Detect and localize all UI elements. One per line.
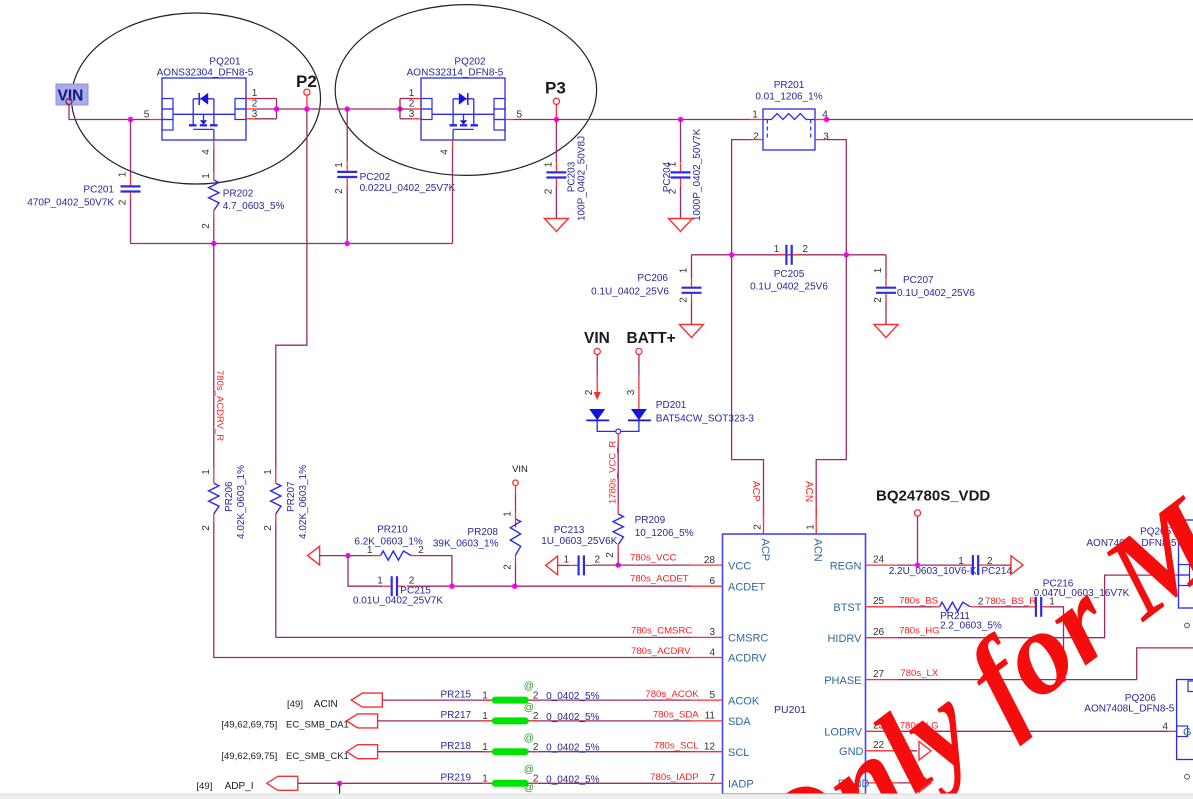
svg-text:PR206: PR206	[224, 481, 235, 512]
connector arrow PC213 net	[546, 556, 558, 575]
wire ACN drop	[816, 255, 846, 517]
svg-text:PR208: PR208	[467, 527, 498, 538]
svg-text:PR217: PR217	[441, 710, 472, 721]
wire arrow to PC213	[558, 564, 570, 566]
svg-text:PC213: PC213	[554, 525, 585, 536]
svg-text:780s_ACDET: 780s_ACDET	[630, 574, 689, 585]
svg-text:780s_ACDRV_R: 780s_ACDRV_R	[214, 370, 225, 441]
svg-text:780s_ACOK: 780s_ACOK	[645, 689, 699, 700]
PQ201 pins 1-3 stubs	[246, 98, 255, 100]
wire BATT+ to diode	[638, 355, 640, 376]
svg-text:2: 2	[533, 690, 539, 701]
wire PGND stub	[898, 782, 917, 784]
wire main rail to right edge	[827, 119, 1193, 121]
wire P3 row to PC204 and PR201	[556, 119, 750, 121]
transistor PQ202	[421, 78, 505, 140]
svg-text:PR219: PR219	[441, 773, 472, 784]
IC pin 5 ACOK	[691, 699, 723, 701]
resistor PR202	[213, 140, 215, 150]
ellipse around PQ202 circuit	[335, 5, 596, 176]
svg-text:39K_0603_1%: 39K_0603_1%	[433, 539, 499, 550]
svg-text:PR209: PR209	[635, 515, 666, 526]
wire drain row P2 to PQ202	[277, 108, 401, 110]
svg-text:@: @	[524, 782, 534, 793]
wire PC201 branch down	[130, 120, 132, 177]
wire PQ202 to P3	[514, 119, 556, 121]
wire BTST row	[898, 606, 932, 608]
PR201 dashed pads	[766, 120, 768, 140]
svg-text:2: 2	[543, 188, 554, 194]
svg-text:1: 1	[263, 469, 274, 475]
svg-text:1: 1	[564, 555, 570, 566]
ground PC207	[874, 325, 898, 338]
junction rail at PC202	[345, 241, 350, 246]
svg-text:BTST: BTST	[833, 602, 861, 614]
svg-text:VIN: VIN	[584, 330, 610, 347]
svg-text:1: 1	[482, 711, 488, 722]
svg-text:0_0402_5%: 0_0402_5%	[546, 774, 599, 785]
IC pin 22 GND	[866, 750, 899, 752]
svg-text:780s_BS: 780s_BS	[899, 595, 938, 606]
svg-text:G: G	[1183, 727, 1192, 739]
svg-text:PR215: PR215	[441, 689, 472, 700]
svg-text:PHASE: PHASE	[824, 675, 861, 687]
PQ202 pins 1-3 stubs	[400, 98, 412, 100]
svg-text:2: 2	[263, 525, 274, 531]
connector arrow PR210 net	[308, 546, 320, 565]
svg-text:4.7_0603_5%: 4.7_0603_5%	[223, 201, 285, 212]
wire REGN row	[898, 564, 967, 566]
wire PC214 to arrow	[987, 564, 1011, 566]
svg-text:EC_SMB_CK1: EC_SMB_CK1	[286, 751, 349, 762]
svg-text:2: 2	[753, 131, 759, 142]
wire LODRV row	[898, 730, 1168, 732]
wire PC206 to ground	[691, 301, 693, 324]
svg-text:PD201: PD201	[656, 400, 687, 411]
wire VCC_R net down	[617, 434, 619, 441]
svg-text:ACN: ACN	[811, 539, 823, 562]
svg-text:PC207: PC207	[903, 275, 934, 286]
svg-text:CMSRC: CMSRC	[728, 633, 768, 645]
svg-text:1: 1	[958, 556, 964, 567]
wire to PC216	[979, 606, 1028, 608]
wire VDD drop	[917, 516, 919, 565]
IC pin 3 CMSRC	[691, 636, 723, 638]
svg-text:2: 2	[595, 555, 601, 566]
connector ACIN	[351, 693, 382, 707]
svg-text:1: 1	[201, 173, 212, 179]
wire P2 net down to PR207	[276, 109, 307, 468]
capacitor PC213	[577, 555, 579, 575]
svg-text:26: 26	[873, 627, 885, 638]
svg-text:1: 1	[873, 267, 884, 273]
ground PC206	[680, 325, 704, 338]
svg-text:780s_SCL: 780s_SCL	[654, 741, 699, 752]
resistor PR209	[617, 505, 619, 506]
svg-text:0.022U_0402_25V7K: 0.022U_0402_25V7K	[360, 183, 456, 194]
IC pin 25 BTST	[866, 606, 899, 608]
svg-text:[49]: [49]	[287, 699, 303, 710]
wire PC207 to ground	[885, 301, 887, 324]
svg-text:4.02K_0603_1%: 4.02K_0603_1%	[298, 465, 309, 539]
PR201 pin 1 stub	[750, 119, 763, 121]
IC pin 26 HIDRV	[866, 637, 899, 639]
capacitor PC206	[691, 255, 693, 279]
svg-text:PQ206: PQ206	[1125, 693, 1157, 704]
svg-text:ACDET: ACDET	[728, 581, 766, 593]
svg-text:1: 1	[201, 469, 212, 475]
svg-text:780s_IADP: 780s_IADP	[650, 772, 699, 783]
IC pin 23 LODRV	[866, 730, 899, 732]
connector arrow REGN	[1011, 556, 1023, 575]
svg-text:1000P_0402_50V7K: 1000P_0402_50V7K	[692, 128, 703, 221]
wire PC215 branch	[348, 556, 383, 587]
svg-text:0_0402_5%: 0_0402_5%	[546, 691, 599, 702]
PR201 zigzag	[763, 114, 815, 120]
svg-text:4: 4	[1162, 722, 1168, 733]
svg-text:27: 27	[873, 669, 885, 680]
svg-text:3: 3	[709, 627, 715, 638]
wire SCL row	[378, 751, 691, 753]
svg-text:P3: P3	[545, 79, 566, 98]
junction ADP_I branch	[337, 781, 342, 786]
wire PC216 to LX node	[1050, 607, 1064, 680]
capacitor PC207	[885, 255, 887, 279]
svg-text:PC205: PC205	[774, 269, 805, 280]
diode PD201-A	[589, 409, 605, 420]
wire bottom rail	[131, 243, 453, 245]
connector arrow GND	[919, 742, 931, 761]
junction at PC201 tap	[128, 117, 133, 122]
connector arrow PGND	[919, 774, 931, 793]
svg-text:@: @	[524, 703, 534, 714]
transistor PQ201	[162, 78, 246, 140]
svg-text:2: 2	[584, 389, 595, 395]
svg-text:[49,62,69,75]: [49,62,69,75]	[221, 751, 277, 762]
svg-text:12: 12	[704, 742, 716, 753]
svg-text:2: 2	[605, 552, 616, 558]
wire VIN to rail	[69, 105, 150, 120]
capacitor PC205	[785, 245, 787, 265]
svg-text:ACP: ACP	[750, 481, 761, 502]
bottom scrollbar	[0, 794, 1193, 799]
wire PHASE row	[898, 679, 1064, 681]
svg-text:ACP: ACP	[759, 539, 771, 562]
svg-text:BAT54CW_SOT323-3: BAT54CW_SOT323-3	[656, 414, 755, 425]
wire ACDRV_R vertical	[213, 244, 215, 468]
ellipse around PQ201 circuit	[72, 13, 321, 184]
IC pin 28 VCC	[691, 564, 723, 566]
resistor PR211	[940, 602, 971, 611]
svg-text:BATT+: BATT+	[627, 330, 676, 347]
svg-text:24: 24	[873, 555, 885, 566]
connector ADP_I	[267, 776, 298, 790]
junction PC205 left	[729, 252, 734, 257]
wire PC204 to ground	[680, 186, 682, 219]
svg-text:2: 2	[201, 223, 212, 229]
wire ACP drop	[732, 255, 764, 517]
svg-text:2: 2	[753, 524, 764, 530]
svg-text:0.01U_0402_25V7K: 0.01U_0402_25V7K	[353, 596, 443, 607]
jumper PR217	[483, 720, 492, 722]
wire VIN to PR208	[515, 486, 517, 495]
svg-text:6.2K_0603_1%: 6.2K_0603_1%	[354, 537, 423, 548]
wire P2 drop	[306, 95, 308, 109]
svg-text:780s_SDA: 780s_SDA	[653, 710, 699, 721]
wire PR202 to rail	[213, 219, 215, 244]
pin 5 stub PQ201	[150, 119, 162, 121]
wire PC205 row	[692, 254, 887, 256]
svg-text:1: 1	[334, 162, 345, 168]
svg-text:AON7408L_DFN8-5: AON7408L_DFN8-5	[1084, 704, 1174, 715]
wire ACIN row	[382, 699, 690, 701]
IC pin 7 IADP	[691, 782, 723, 784]
wire PR207 to CMSRC row	[276, 522, 691, 638]
svg-text:2: 2	[802, 244, 808, 255]
svg-text:PR218: PR218	[441, 741, 472, 752]
wire PC202 branch down	[346, 109, 348, 162]
svg-text:28: 28	[704, 555, 716, 566]
connector EC_SMB_CK1	[347, 745, 378, 759]
svg-text:5: 5	[709, 690, 715, 701]
svg-text:ACIN: ACIN	[314, 699, 338, 710]
PQ202 pin 5 stub	[505, 119, 514, 121]
svg-text:6: 6	[709, 576, 715, 587]
capacitor PC216	[1035, 597, 1037, 617]
capacitor PC214	[972, 555, 974, 575]
svg-text:11: 11	[705, 711, 716, 722]
wire PC203 to ground	[555, 186, 557, 219]
wire PC202 to rail	[346, 185, 348, 243]
wire LX to PQ205 source	[1064, 648, 1193, 680]
svg-text:2: 2	[201, 525, 212, 531]
svg-text:1: 1	[543, 161, 554, 167]
IC pin 24 REGN	[866, 564, 899, 566]
connector EC_SMB_DA1	[347, 714, 378, 728]
svg-text:1: 1	[409, 88, 415, 99]
capacitor PC204	[680, 120, 682, 163]
wire HIDRV row	[898, 575, 1170, 638]
svg-text:25: 25	[873, 596, 885, 607]
svg-text:1: 1	[482, 690, 488, 701]
svg-text:AONS32314_DFN8-5: AONS32314_DFN8-5	[407, 68, 504, 79]
svg-text:1: 1	[774, 244, 780, 255]
svg-text:2: 2	[409, 99, 415, 110]
power flag VIN (highlighted)	[56, 84, 88, 105]
svg-text:[49]: [49]	[196, 781, 212, 792]
svg-text:@: @	[524, 764, 534, 775]
svg-text:PC204: PC204	[662, 161, 673, 192]
svg-text:EC_SMB_DA1: EC_SMB_DA1	[286, 720, 349, 731]
svg-text:VIN: VIN	[58, 88, 84, 105]
wire VIN to diode	[596, 355, 598, 376]
svg-text:SDA: SDA	[728, 716, 751, 728]
junction PR201 pin 4	[824, 117, 829, 122]
svg-text:0.1U_0402_25V6: 0.1U_0402_25V6	[897, 288, 975, 299]
junction LX BTST cap	[1061, 677, 1066, 682]
svg-text:4: 4	[201, 149, 212, 155]
svg-text:VIN: VIN	[512, 464, 528, 475]
wire PR208 to ACDET row	[515, 563, 517, 586]
svg-text:ACDRV: ACDRV	[728, 653, 767, 665]
svg-text:4: 4	[709, 647, 715, 658]
jumper PR218	[483, 751, 492, 753]
svg-text:780s_HG: 780s_HG	[899, 626, 940, 637]
svg-text:PR207: PR207	[286, 481, 297, 512]
svg-text:0_0402_5%: 0_0402_5%	[546, 743, 599, 754]
svg-text:P2: P2	[296, 72, 317, 91]
PQ202 drain tie bar	[399, 99, 401, 119]
svg-text:2: 2	[679, 297, 690, 303]
svg-text:3: 3	[626, 389, 637, 395]
wire P3 drop	[555, 104, 557, 119]
junction drain bar	[274, 106, 279, 111]
wire PR210 to ACDET row	[419, 556, 452, 587]
svg-text:4: 4	[440, 149, 451, 155]
wire PC201 to rail	[130, 200, 132, 244]
svg-text:1: 1	[118, 171, 129, 177]
svg-text:2: 2	[252, 99, 258, 110]
svg-text:REGN: REGN	[830, 560, 862, 572]
IC pin 6 ACDET	[691, 585, 723, 587]
wire SDA row	[378, 720, 691, 722]
resistor PR206	[213, 468, 215, 476]
IC pin 27 PHASE	[866, 679, 899, 681]
svg-text:1: 1	[752, 110, 758, 121]
svg-text:4.02K_0603_1%: 4.02K_0603_1%	[236, 465, 247, 539]
svg-text:SCL: SCL	[728, 747, 749, 759]
resistor PR208	[515, 520, 517, 528]
resistor PR210	[381, 551, 412, 560]
svg-text:ACOK: ACOK	[728, 695, 760, 707]
svg-text:ACN: ACN	[803, 481, 814, 502]
capacitor PC201	[130, 177, 132, 179]
IC pin 21 PGND	[866, 782, 899, 784]
capacitor PC215	[391, 576, 393, 596]
svg-text:3: 3	[252, 109, 258, 120]
svg-text:PQ202: PQ202	[454, 57, 486, 68]
svg-text:470P_0402_50V7K: 470P_0402_50V7K	[27, 198, 114, 209]
svg-text:AONS32304_DFN8-5: AONS32304_DFN8-5	[157, 68, 254, 79]
wire PR209 to VCC row	[617, 553, 619, 566]
wire ACDET row	[407, 585, 691, 587]
IC pin 12 SCL	[691, 751, 723, 753]
svg-text:1: 1	[679, 267, 690, 273]
capacitor PC202	[346, 162, 348, 164]
ground PC203	[544, 219, 568, 232]
svg-text:@: @	[524, 733, 534, 744]
junction rail at PR202	[211, 241, 216, 246]
wire VCC row	[592, 564, 690, 566]
svg-text:1: 1	[482, 742, 488, 753]
svg-text:780s_CMSRC: 780s_CMSRC	[631, 625, 692, 636]
IC pin 11 SDA	[691, 720, 723, 722]
wire IADP row	[298, 782, 691, 784]
diode common cathode wires	[597, 420, 639, 431]
jumper PR219	[483, 782, 492, 784]
svg-text:HIDRV: HIDRV	[827, 633, 862, 645]
IC pin 4 ACDRV	[691, 657, 723, 659]
svg-text:3: 3	[409, 109, 415, 120]
wire arrow to PR210	[320, 555, 373, 557]
svg-text:780s_VCC: 780s_VCC	[630, 553, 676, 564]
svg-text:1: 1	[482, 774, 488, 785]
wire PR206 to ACDRV row	[214, 522, 691, 658]
svg-text:1: 1	[252, 88, 258, 99]
sense resistor PR201	[763, 109, 815, 150]
svg-text:0_0402_5%: 0_0402_5%	[546, 712, 599, 723]
svg-text:PC214: PC214	[981, 566, 1012, 577]
svg-text:10_1206_5%: 10_1206_5%	[635, 528, 694, 539]
svg-text:1: 1	[377, 575, 383, 586]
svg-text:2.2U_0603_10V6-K: 2.2U_0603_10V6-K	[889, 566, 977, 577]
svg-text:VCC: VCC	[728, 560, 751, 572]
junction PC205 right	[844, 252, 849, 257]
diode PD201-B	[631, 409, 647, 420]
junction PC202 tap	[345, 106, 350, 111]
IC PU201 BQ24780S	[723, 534, 866, 794]
svg-text:PR210: PR210	[377, 524, 408, 535]
svg-text:2: 2	[334, 188, 345, 194]
wire GND stub	[898, 750, 917, 752]
svg-text:7: 7	[709, 773, 715, 784]
svg-text:100P_0402_50V8J: 100P_0402_50V8J	[577, 136, 588, 221]
svg-text:2: 2	[978, 597, 984, 608]
svg-text:PC201: PC201	[83, 185, 114, 196]
svg-text:PR201: PR201	[774, 80, 805, 91]
svg-text:PC206: PC206	[637, 273, 668, 284]
junction PQ202 tie bar	[397, 106, 402, 111]
svg-text:PU201: PU201	[774, 704, 806, 716]
svg-text:1U_0603_25V6K: 1U_0603_25V6K	[541, 536, 618, 547]
svg-text:ADP_I: ADP_I	[225, 781, 254, 792]
ground PC204	[669, 219, 693, 232]
svg-text:1: 1	[503, 511, 514, 517]
svg-text:3: 3	[823, 131, 829, 142]
svg-text:2: 2	[873, 297, 884, 303]
jumper PR215	[483, 699, 492, 701]
svg-text:0.01_1206_1%: 0.01_1206_1%	[755, 92, 822, 103]
resistor PR207	[275, 468, 277, 476]
PR201 pin 4 stub	[815, 119, 828, 121]
svg-text:2: 2	[118, 199, 129, 205]
svg-text:1: 1	[806, 524, 817, 530]
svg-text:780s_ACDRV: 780s_ACDRV	[631, 646, 691, 657]
svg-text:PC202: PC202	[360, 172, 391, 183]
svg-text:[49,62,69,75]: [49,62,69,75]	[221, 720, 277, 731]
svg-text:5: 5	[144, 110, 150, 121]
PQ201 drain tie bar	[276, 99, 278, 119]
wire PQ202 pin4 drop	[452, 140, 454, 150]
svg-text:PQ201: PQ201	[209, 57, 241, 68]
svg-text:0.1U_0402_25V6: 0.1U_0402_25V6	[591, 287, 669, 298]
svg-text:2: 2	[503, 564, 514, 570]
svg-text:0.1U_0402_25V6: 0.1U_0402_25V6	[750, 282, 828, 293]
svg-text:BQ24780S_VDD: BQ24780S_VDD	[876, 488, 990, 505]
svg-text:PR202: PR202	[223, 188, 254, 199]
svg-text:@: @	[524, 681, 534, 692]
svg-text:1780s_VCC_R: 1780s_VCC_R	[607, 440, 618, 504]
capacitor PC203	[555, 120, 557, 163]
